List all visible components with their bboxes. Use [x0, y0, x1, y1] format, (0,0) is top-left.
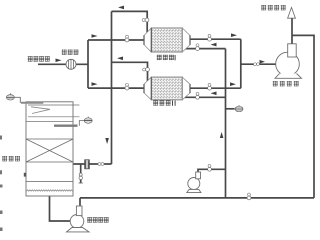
wire bed II top return	[112, 62, 148, 81]
valve bottom line	[247, 193, 251, 200]
label 脱附床	[2, 156, 20, 161]
valve bed II out2	[196, 92, 200, 99]
valve tower feed	[98, 163, 104, 166]
label 吸附床II	[153, 100, 175, 106]
adsorption bed II vessel	[144, 77, 190, 100]
label 高空排放	[261, 5, 286, 10]
wire bed I outlet 2	[184, 48, 226, 50]
label 有机废气	[28, 56, 50, 61]
arrow bed II out1 right	[230, 82, 236, 86]
arrow manifold B down	[105, 138, 109, 144]
adsorption bed I vessel	[144, 28, 190, 52]
wire bed II outlet 1	[190, 87, 241, 89]
wire manifold D (clean gas)	[240, 39, 242, 88]
wire stack bypass branch	[292, 35, 314, 198]
breather on manifold C	[235, 105, 243, 112]
wire drain stub	[80, 164, 82, 183]
arrow bed I top left	[118, 6, 124, 10]
valve bed II out1	[208, 83, 212, 90]
scan artifacts left edge	[0, 136, 3, 232]
label 过滤器	[62, 50, 79, 55]
filter F1	[66, 59, 76, 69]
arrow bed I out1 right	[231, 33, 237, 37]
wire pump P1 discharge	[79, 198, 81, 206]
valve bed II inlet	[125, 83, 129, 90]
tower water level wave	[27, 190, 73, 192]
tower level gauge	[24, 173, 26, 177]
tower demister zigzag	[31, 107, 50, 114]
wire breather stub	[226, 108, 235, 110]
arrow bed II top left	[117, 57, 123, 61]
tower tray line	[28, 116, 80, 118]
valve bed I inlet	[125, 35, 129, 42]
wire pump P1 suction	[50, 196, 71, 221]
valve fan inlet	[254, 63, 260, 66]
tower demister top tray	[28, 104, 79, 106]
wire bed II inlet branch	[88, 87, 144, 89]
valve drain stub	[79, 173, 83, 183]
arrow bed II inlet right	[92, 82, 98, 86]
wire desorb feed to tower	[73, 163, 112, 165]
valve bed I out2	[196, 44, 200, 51]
arrow manifold C up	[220, 132, 224, 138]
wire bed II outlet 2	[184, 96, 226, 98]
wire bed I inlet branch	[88, 39, 144, 41]
wire manifold B (desorption return)	[111, 11, 113, 164]
wire pump P2 discharge	[198, 169, 226, 172]
valve bed II top	[143, 68, 150, 72]
desorption tower vessel	[26, 102, 73, 196]
arrow bed I out2 left	[211, 43, 217, 47]
wire bed I outlet 1	[190, 38, 241, 40]
tower packing section X	[26, 139, 73, 162]
wire feed inlet	[38, 63, 88, 65]
wire manifold C (desorption air)	[225, 49, 227, 198]
tower top gray duct bar	[21, 102, 43, 104]
label 脱附风机	[87, 217, 109, 222]
valve bed I out1	[208, 34, 212, 41]
wire stack riser	[291, 19, 293, 45]
arrow bed I inlet right	[92, 34, 98, 38]
tower spray header	[54, 124, 78, 126]
arrow fan inlet right	[260, 60, 266, 64]
valve bed I top	[142, 18, 149, 22]
wire manifold A (feed header)	[87, 40, 89, 88]
float valve assembly	[79, 117, 92, 126]
wire bottom desorption line	[80, 197, 314, 199]
label 吸附床I	[157, 55, 176, 61]
makeup fan P2	[187, 172, 201, 193]
tower section line	[26, 120, 73, 122]
desorption fan P1	[67, 206, 90, 232]
valve pump P2 line	[208, 164, 212, 171]
tower sump line	[26, 181, 73, 183]
arrow bed II out2 left	[211, 92, 217, 96]
wire bed I top return	[112, 11, 148, 32]
stack discharge triangle	[288, 7, 296, 18]
adsorption fan U1	[275, 44, 302, 79]
tower top breather	[6, 93, 14, 100]
tower top breather pipe	[15, 97, 20, 103]
wire fan inlet	[241, 63, 276, 65]
label 吸附风机	[273, 81, 299, 86]
arrow feed right	[56, 59, 62, 63]
heater on desorb feed line	[85, 160, 90, 169]
